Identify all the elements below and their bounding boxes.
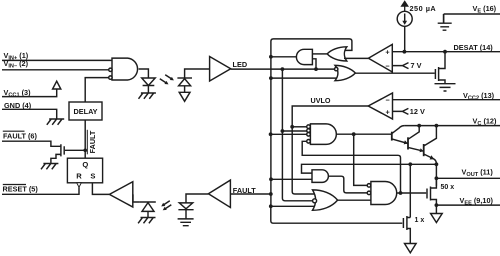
or gate OR2 desat blank (points right, bubble top) <box>335 65 355 80</box>
svg-text:FAULT: FAULT <box>88 130 97 153</box>
svg-text:RESET (5): RESET (5) <box>3 185 39 194</box>
wire LED signal <box>231 68 335 70</box>
label FAULT vertical with overline <box>88 130 97 153</box>
buffer A2 fault LED driver <box>109 182 132 207</box>
svg-text:DELAY: DELAY <box>73 107 97 116</box>
flip-flop fault latch <box>67 158 102 183</box>
svg-text:UVLO: UVLO <box>311 96 331 105</box>
wire GND <box>2 109 57 119</box>
label 7 V <box>411 61 422 70</box>
wire VIN- <box>2 69 109 71</box>
and gate AND2 50x driver (2 bubbles) <box>371 182 397 205</box>
wire U1 third input to DELAY <box>85 78 108 103</box>
wire OR3 output to AND2 <box>338 199 371 201</box>
wire VIN+ <box>2 59 112 61</box>
wire OR2 output to desat mosfet gate <box>355 72 434 74</box>
wire LED bus vertical <box>282 69 313 201</box>
pin label VCC1 (3) <box>4 88 32 99</box>
comparator UVLO 12V <box>368 93 392 119</box>
wire AND2 top bubble feed <box>354 134 367 185</box>
wire 1x drain from VOUT feedback <box>409 164 411 217</box>
optical arrows channel 1 <box>160 79 166 83</box>
pin label VIN- (2) <box>4 59 29 70</box>
svg-text:DESAT (14): DESAT (14) <box>454 43 494 52</box>
label VEE (9,10) <box>460 196 494 207</box>
wire OR2 bottom input from fault bus <box>271 77 337 79</box>
nor gate OR3 (3 inputs, middle bubbled) <box>313 190 338 210</box>
wire UVLO plus to 12V ref <box>393 108 409 114</box>
label 12 V <box>410 107 425 116</box>
svg-text:7 V: 7 V <box>411 61 422 70</box>
and gate AND1 mute latch (points left) <box>296 49 312 64</box>
wire DESAT net <box>392 51 500 53</box>
wire FAULT pin <box>2 141 56 146</box>
nmos DESAT discharge <box>435 52 445 84</box>
label 50 x <box>441 184 455 191</box>
wire AND3 in2 from LED bus <box>282 130 306 132</box>
svg-text:R: R <box>76 171 82 180</box>
VEE arrow below 1x source <box>405 244 417 253</box>
pin VE (16) wire and ground <box>444 14 500 23</box>
svg-text:LED: LED <box>233 60 248 69</box>
svg-text:+: + <box>385 47 389 56</box>
earth ground LED2 <box>178 219 194 226</box>
svg-text:+: + <box>385 107 389 116</box>
transistor T2 <box>407 137 409 149</box>
svg-text:S: S <box>90 171 95 180</box>
wire AND2 output to 50x gate <box>397 192 427 194</box>
pin label RESET (5) with overline <box>3 185 39 194</box>
svg-text:50 x: 50 x <box>441 184 455 191</box>
junction dots on fault bus <box>269 55 273 59</box>
label DESAT (14) <box>454 43 494 52</box>
svg-text:VEE (9,10): VEE (9,10) <box>460 196 494 207</box>
wire B VOUT feedback <box>302 164 437 173</box>
wire A2 to PD2 <box>133 194 139 202</box>
label UVLO <box>311 96 331 105</box>
photodiode PD1 <box>177 77 192 79</box>
wire OR1 output to AND1 <box>312 53 327 55</box>
wire AND3 in4 gate feedback (wire A) <box>302 141 400 193</box>
pin label GND (4) <box>4 101 32 110</box>
wire AND4 in2 from fault bus <box>271 178 312 180</box>
and gate AND4 <box>312 170 328 183</box>
nmos Q_FAULT open drain <box>51 144 64 163</box>
wire PD1 to amp A1 <box>185 69 210 78</box>
label VCC2 (13) <box>463 91 495 102</box>
wire VOUT <box>436 177 500 179</box>
wire VCC1 <box>2 89 57 97</box>
svg-text:FAULT (6): FAULT (6) <box>3 131 37 140</box>
wire FAULT signal to logic <box>230 193 270 195</box>
svg-text:−: − <box>385 62 389 71</box>
comparator DESAT 7V <box>368 44 392 72</box>
optical arrows channel 2 <box>164 201 170 205</box>
wire VEE <box>436 204 500 206</box>
svg-text:12 V: 12 V <box>410 107 425 116</box>
pin label FAULT (6) with overline <box>3 131 37 140</box>
ground VE <box>438 14 452 30</box>
or gate OR1 mute (points left) <box>327 47 347 61</box>
buffer A3 fault receiver <box>208 180 230 207</box>
nmos 1x soft turnoff <box>403 216 410 244</box>
label VOUT (11) <box>462 168 494 179</box>
wire UVLO minus to VCC2 <box>393 99 500 101</box>
wire AND1 output <box>271 56 296 58</box>
ground PD2 <box>138 218 155 224</box>
pin label VIN+ (1) <box>4 51 29 62</box>
VEE arrow below 50x source <box>435 205 437 213</box>
svg-text:Q: Q <box>82 160 88 169</box>
earth ground desat mosfet <box>435 84 456 91</box>
wire LED tap to AND1 input <box>312 59 316 69</box>
LED LED2 <box>179 203 192 209</box>
label FAULT wire <box>233 186 257 195</box>
current source 250uA <box>404 26 406 51</box>
label 250 uA <box>410 4 437 13</box>
DELAY box <box>84 102 86 119</box>
wire OR3 bottom input from fault bus <box>271 205 315 207</box>
label LED <box>233 60 248 69</box>
wire U1 output to LED1 <box>139 69 149 78</box>
transistor T1 <box>391 132 393 141</box>
wire UVLO output <box>292 106 368 194</box>
wire AND3 in3 from fault bus <box>271 133 307 135</box>
power arrow VCC1 <box>53 81 61 89</box>
transistor T3 <box>423 144 425 156</box>
wire comparator minus to 7V ref <box>392 63 408 69</box>
and gate AND3 gate-drive (4 bubbled inputs) <box>310 124 336 144</box>
label VC (12) <box>473 117 497 128</box>
wire VC rail <box>405 125 500 127</box>
LED LED1 <box>142 78 156 86</box>
and gate U1 input AND <box>112 58 138 80</box>
VEE arrow below PD1 <box>184 86 186 93</box>
wire mute feedback rail <box>271 39 352 57</box>
wire latch S input <box>92 183 109 195</box>
buffer A1 <box>210 57 231 82</box>
nmos 50x output pulldown <box>427 178 436 205</box>
ground LED1 <box>139 93 156 99</box>
photodiode PD2 <box>139 201 155 203</box>
wire LED2 to A3 <box>186 194 208 203</box>
junction dot fault gate tap <box>83 149 87 153</box>
svg-text:250 µA: 250 µA <box>410 4 437 13</box>
reset wedge on R pin <box>77 183 82 187</box>
wire OR1 bottom input from comparator <box>344 57 368 59</box>
ground Q_FAULT <box>41 164 58 170</box>
svg-text:VC (12): VC (12) <box>473 117 497 128</box>
svg-text:−: − <box>385 96 389 105</box>
svg-text:VE (16): VE (16) <box>473 4 497 15</box>
ground GND4 <box>47 119 64 125</box>
label 1 x <box>415 217 425 224</box>
svg-text:VCC2 (13): VCC2 (13) <box>463 91 495 102</box>
wire delay to latch Q <box>84 120 86 158</box>
wire AND4 output to AND2 <box>328 176 367 193</box>
wire AND3 in1 from UVLO <box>292 126 307 128</box>
wire fault bus vertical <box>271 57 403 223</box>
wire RESET <box>2 187 79 194</box>
svg-text:VOUT (11): VOUT (11) <box>462 168 494 179</box>
svg-text:1 x: 1 x <box>415 217 425 224</box>
wire AND3 output to T1 base <box>336 133 391 135</box>
